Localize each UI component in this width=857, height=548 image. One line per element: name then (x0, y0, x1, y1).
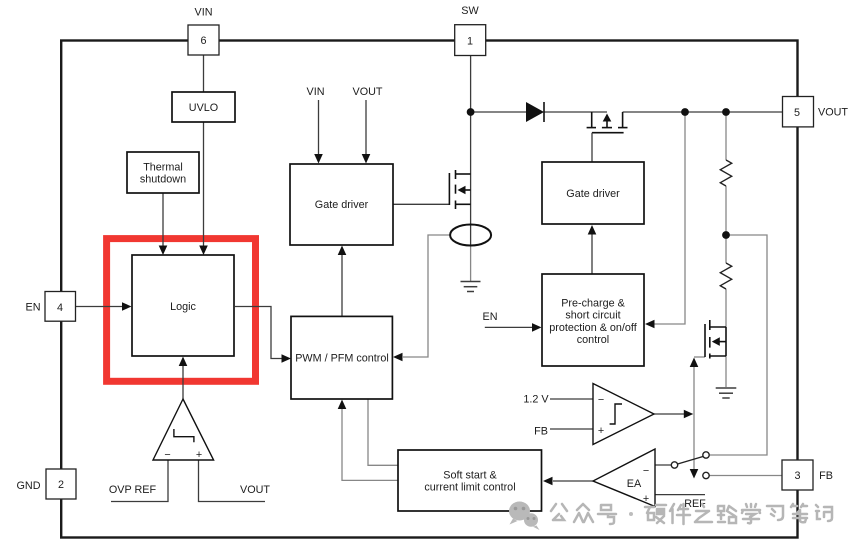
svg-text:+: + (598, 425, 604, 437)
svg-text:Thermal: Thermal (143, 161, 183, 173)
svg-text:FB: FB (534, 426, 548, 438)
svg-text:PWM / PFM control: PWM / PFM control (295, 353, 389, 365)
svg-text:OVP REF: OVP REF (109, 484, 157, 496)
svg-text:VOUT: VOUT (818, 107, 848, 119)
svg-text:UVLO: UVLO (189, 102, 218, 114)
svg-text:Pre-charge &: Pre-charge & (561, 298, 625, 310)
svg-text:short circuit: short circuit (565, 310, 620, 322)
svg-text:4: 4 (57, 302, 63, 314)
svg-text:current limit control: current limit control (424, 482, 515, 494)
svg-text:1.2 V: 1.2 V (523, 394, 549, 406)
svg-text:Gate driver: Gate driver (566, 188, 620, 200)
svg-text:2: 2 (58, 479, 64, 491)
svg-text:EA: EA (627, 478, 642, 490)
svg-text:6: 6 (200, 35, 206, 47)
svg-text:−: − (598, 394, 604, 406)
svg-text:Logic: Logic (170, 301, 196, 313)
svg-text:VIN: VIN (195, 6, 213, 18)
svg-text:−: − (643, 465, 649, 477)
svg-text:protection & on/off: protection & on/off (549, 322, 637, 334)
svg-text:EN: EN (483, 311, 498, 323)
svg-text:5: 5 (794, 107, 800, 119)
svg-text:FB: FB (819, 470, 833, 482)
svg-text:VIN: VIN (307, 86, 325, 98)
svg-text:VOUT: VOUT (353, 86, 383, 98)
svg-text:+: + (196, 449, 202, 461)
svg-text:GND: GND (17, 480, 41, 492)
svg-text:shutdown: shutdown (140, 174, 186, 186)
svg-text:control: control (577, 334, 609, 346)
svg-text:3: 3 (794, 470, 800, 482)
svg-text:1: 1 (467, 35, 473, 47)
svg-text:SW: SW (461, 5, 479, 17)
svg-text:−: − (164, 449, 170, 461)
svg-text:Soft start &: Soft start & (443, 469, 497, 481)
svg-text:EN: EN (26, 302, 41, 314)
svg-text:VOUT: VOUT (240, 484, 270, 496)
svg-text:Gate driver: Gate driver (315, 199, 369, 211)
svg-text:+: + (643, 493, 649, 505)
